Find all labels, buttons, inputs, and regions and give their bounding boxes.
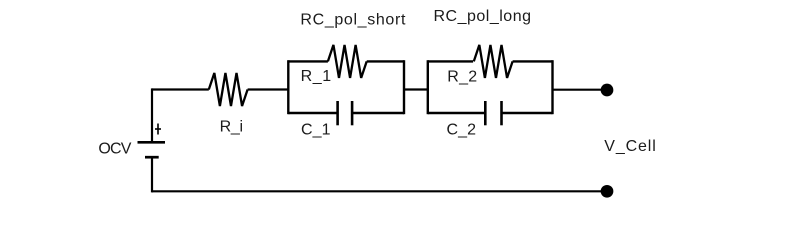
svg-text:C_1: C_1 (301, 121, 331, 138)
svg-text:C_2: C_2 (447, 121, 477, 138)
svg-text:R_1: R_1 (301, 68, 332, 85)
svg-text:R_i: R_i (220, 119, 244, 136)
svg-text:RC_pol_short: RC_pol_short (300, 11, 406, 28)
svg-text:R_2: R_2 (447, 68, 477, 85)
svg-text:V_Cell: V_Cell (604, 138, 656, 155)
svg-text:RC_pol_long: RC_pol_long (434, 8, 532, 25)
svg-text:OCV: OCV (98, 141, 131, 158)
